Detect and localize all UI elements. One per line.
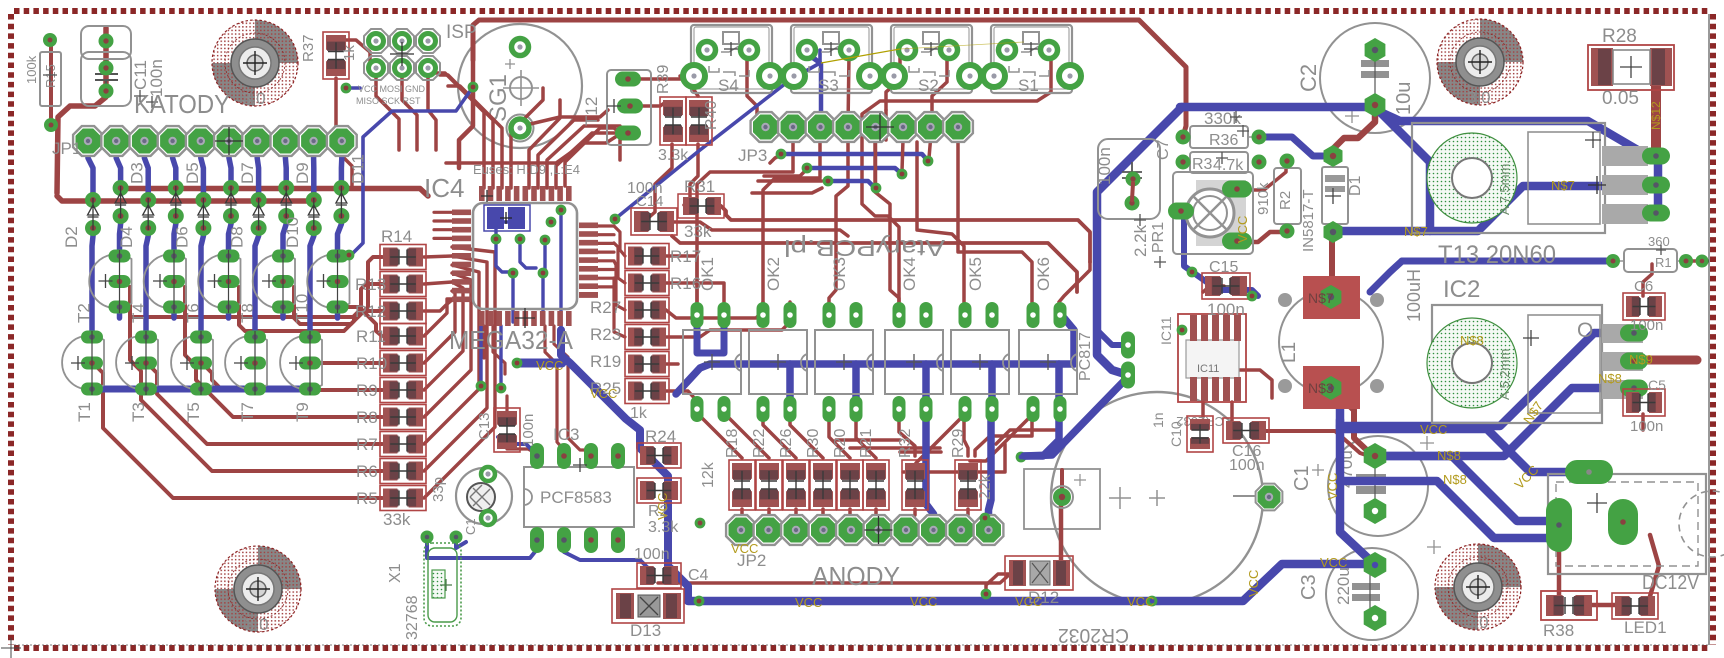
mounting hole bottom-left (215, 546, 301, 634)
wire red S2 left (886, 52, 900, 110)
resistor R1 (1606, 234, 1709, 272)
wire blue crystal 1 (427, 537, 538, 558)
svg-text:S3: S3 (818, 76, 839, 95)
wire blue D8-T (255, 228, 259, 337)
diode D5 (168, 162, 202, 224)
wire red IC4 right pin stub 7 (598, 285, 614, 288)
wire red PR1 top link (1240, 164, 1286, 190)
svg-text:R22: R22 (751, 429, 768, 458)
svg-text:100uH: 100uH (1404, 269, 1424, 322)
wire blue JP1-6 (229, 141, 231, 188)
wire red IC11 3 (1222, 370, 1272, 398)
resistor R18 (729, 460, 755, 510)
wire blue D9-T (283, 216, 286, 256)
IC IC4 (MEGA32-A) (452, 186, 598, 328)
switch S2 (883, 25, 981, 95)
optocoupler OK5 (951, 257, 1009, 422)
wire red IC4-ISP 1 (432, 73, 484, 188)
wire red R15 bottom (49, 47, 53, 125)
svg-text:T8: T8 (238, 303, 257, 323)
svg-text:C7: C7 (1155, 139, 1172, 160)
inductor L1 pads (1303, 276, 1360, 409)
wire red res-JP2 5 (876, 509, 879, 530)
diode D8 (228, 192, 267, 248)
wire blue D4-T (146, 228, 148, 337)
wire red R27-OK2 (666, 302, 763, 318)
wire red T5-R9 (206, 367, 382, 390)
wire red R13-IC4 (424, 282, 452, 284)
svg-text:T7: T7 (238, 402, 257, 422)
wire red OK-R5 (856, 420, 876, 458)
wire red OK-R2 (763, 420, 796, 458)
diode D9 (278, 162, 312, 224)
wire blue JP1-10 (339, 141, 345, 188)
resistor R32 (902, 460, 928, 510)
svg-text:A 5.2mm: A 5.2mm (1497, 349, 1512, 400)
svg-text:3.0: 3.0 (1465, 613, 1489, 632)
svg-text:PR1: PR1 (1150, 222, 1167, 253)
svg-text:JP3: JP3 (738, 146, 767, 165)
capacitor C3 pads (1364, 552, 1387, 631)
wire blue D5-T (174, 216, 176, 256)
wire red R37 top (336, 40, 370, 62)
resistor R34 (1176, 152, 1267, 174)
resistor R21 (863, 460, 889, 510)
svg-text:X1: X1 (387, 563, 404, 583)
wire red IC4 top fan 9 (511, 88, 543, 188)
wire blue IC3 top (498, 437, 538, 456)
wire red T9-R10 (315, 361, 382, 365)
optocoupler OK3 (815, 257, 873, 422)
speaker SG1 outline (458, 24, 582, 148)
wire blue IC4 to S3 diagonal (615, 50, 820, 219)
svg-text:R16: R16 (670, 274, 701, 293)
resistor R10 (380, 351, 426, 376)
wire red T3-R7 (151, 367, 382, 444)
svg-text:MISO SCK RST: MISO SCK RST (356, 96, 421, 106)
vias misc (341, 82, 991, 529)
resistor R17 (625, 244, 669, 269)
wire blue OK6 short drop (1055, 364, 1063, 408)
resistor R14 (380, 245, 426, 270)
svg-text:VCC: VCC (536, 358, 563, 373)
svg-text:100n: 100n (1095, 147, 1114, 185)
wire red IC4 bottom stubs (482, 326, 485, 358)
svg-text:R40: R40 (703, 101, 720, 130)
svg-text:D4: D4 (117, 226, 136, 248)
resistor R11 (380, 324, 426, 349)
wire red R16-OK1b (666, 283, 724, 302)
optocoupler OK2 (749, 257, 807, 422)
svg-text:VCC: VCC (1246, 570, 1261, 597)
wire blue JP1-8 (283, 141, 289, 188)
wire red JP3 down OK4 (875, 142, 899, 302)
transistor T1 (62, 331, 104, 423)
svg-text:R21: R21 (858, 429, 875, 458)
svg-text:R24: R24 (645, 427, 676, 446)
wire blue S3 to JP3 (806, 51, 821, 127)
svg-text:VCC: VCC (1127, 594, 1154, 609)
svg-text:R1: R1 (1655, 255, 1672, 270)
svg-text:33k: 33k (383, 510, 411, 529)
wire red JP3 pad8 down OK6 (958, 142, 1032, 302)
capacitor C10 (1187, 416, 1213, 452)
svg-text:T5: T5 (184, 402, 203, 422)
svg-text:D11: D11 (348, 154, 367, 184)
svg-text:T4: T4 (129, 303, 148, 323)
header JP3 (738, 112, 973, 165)
wire red R31 right 1 (721, 206, 1090, 262)
svg-text:D1: D1 (1347, 175, 1364, 196)
svg-text:AtaryPCB.pl: AtaryPCB.pl (784, 235, 945, 261)
svg-text:R32: R32 (897, 429, 914, 458)
svg-text:2.2k: 2.2k (1131, 224, 1150, 257)
svg-text:D6: D6 (172, 226, 191, 248)
svg-text:R27: R27 (590, 298, 621, 317)
svg-text:IC4: IC4 (424, 173, 464, 203)
wire red DCjack to R38 (1557, 540, 1562, 597)
wire red IC4 left pin stubs (434, 211, 452, 214)
svg-text:3.0: 3.0 (1467, 88, 1491, 107)
optocoupler pads PC817 (1077, 332, 1135, 389)
transistor T7 (225, 331, 267, 423)
svg-text:R23: R23 (590, 325, 621, 344)
svg-text:VCC: VCC (1420, 422, 1447, 437)
diode D4 (117, 192, 156, 248)
wire red IC4-R9 (424, 282, 463, 390)
capacitor C17 on IC4 (blue) (484, 205, 530, 231)
svg-text:910k: 910k (1255, 182, 1272, 215)
wire blue IC2 N$8 (1375, 388, 1634, 456)
svg-text:N$9: N$9 (1629, 352, 1653, 367)
wire blue top right run (1180, 103, 1371, 112)
svg-text:R19: R19 (590, 352, 621, 371)
svg-text:R30: R30 (805, 429, 822, 458)
svg-text:100n: 100n (634, 546, 670, 563)
wire red col link R23 (614, 278, 625, 337)
svg-text:C4: C4 (688, 567, 709, 584)
capacitor C15 (1202, 273, 1250, 299)
wire red res-JP2 0 (741, 509, 742, 530)
svg-text:T13 20N60: T13 20N60 (1438, 241, 1556, 269)
svg-text:ISP: ISP (446, 22, 477, 43)
wire red IC4 right pin stub 4 (598, 259, 614, 262)
svg-text:VCC: VCC (1325, 473, 1340, 500)
wire blue VCC bar at IC4 (1046, 197, 1048, 199)
wire red katody bus A (120, 189, 428, 197)
svg-text:S2: S2 (918, 76, 939, 95)
capacitor C1 pads (1364, 443, 1387, 524)
svg-text:L1: L1 (1279, 342, 1300, 363)
wire red T12 left (620, 133, 628, 160)
mounting hole top-right (1437, 19, 1523, 107)
svg-text:R36: R36 (1209, 132, 1238, 149)
svg-text:3.0: 3.0 (245, 615, 269, 634)
resistor R28 (1588, 26, 1674, 109)
resistor R40 (686, 97, 712, 145)
svg-text:C6: C6 (1634, 278, 1653, 295)
wire red opto xh 1 (836, 438, 900, 442)
svg-text:VCC: VCC (655, 493, 670, 520)
wire red R40 bottom down (684, 144, 698, 205)
svg-text:VCC: VCC (731, 541, 758, 556)
resistor R30 (810, 460, 836, 510)
wire red S3 wire (848, 55, 849, 127)
wire red T8-R13 (294, 284, 382, 324)
wire red IC4 top fan 7 (556, 133, 622, 188)
wire red OK-R3 (790, 420, 823, 458)
wire blue JP1-4 (173, 141, 176, 188)
wire red C5 down (1641, 414, 1645, 430)
wire red IC4-R11 (424, 299, 452, 336)
wire red T12 mid to R39 (632, 102, 666, 106)
wire blue N$8 455 (1375, 456, 1559, 521)
IC IC11 (1158, 314, 1246, 429)
switch S3 (783, 25, 881, 95)
wire red OK6-R29 (970, 415, 1032, 461)
crystal X1 (387, 531, 463, 641)
transistor T9 (280, 331, 322, 423)
wire red R1 right (1686, 259, 1702, 263)
svg-text:N$7: N$7 (1308, 290, 1334, 306)
wire red OK5 feed (884, 110, 888, 140)
wire red opto xlink 3 (975, 420, 1032, 456)
svg-text:ANODY: ANODY (812, 561, 900, 591)
transistor T2 (75, 250, 132, 324)
wire blue OK5 drop long (989, 409, 992, 528)
svg-text:R5: R5 (356, 489, 378, 508)
diode D12 (1005, 556, 1073, 607)
wire red IC4 right pin stub 0 (598, 224, 614, 227)
battery CR2032 outline (1024, 392, 1263, 646)
svg-text:C1: C1 (463, 518, 478, 535)
svg-text:S4: S4 (718, 76, 739, 95)
svg-text:C14: C14 (636, 193, 664, 210)
vias inside IC4 (491, 205, 621, 279)
svg-text:IC2: IC2 (1443, 276, 1480, 303)
wire red IC11 1 (1201, 402, 1205, 417)
svg-text:R3: R3 (1192, 156, 1213, 173)
wire red res-JP2 6 (906, 509, 915, 530)
svg-text:IN5817-T: IN5817-T (1300, 189, 1317, 252)
svg-text:S1: S1 (1018, 76, 1039, 95)
diode D11 (333, 154, 367, 224)
wire red OK5 feed b (917, 142, 964, 302)
header JP2 (726, 515, 1003, 570)
svg-text:R14: R14 (381, 227, 412, 246)
wire red D1 to L1 (1329, 236, 1335, 296)
wire red IC4-R8 (424, 273, 471, 417)
wire blue L1 bottom to trunk (1331, 389, 1340, 430)
svg-text:VCC: VCC (1320, 555, 1347, 570)
svg-text:T3: T3 (129, 402, 148, 422)
resistor R36 (1176, 109, 1267, 149)
wire red DC12V center to LED (1648, 535, 1659, 603)
wire blue IC2 VCC (1340, 333, 1634, 426)
resistor R8 (380, 405, 426, 430)
svg-text:100n: 100n (1229, 457, 1265, 474)
svg-text:R28: R28 (1602, 26, 1637, 47)
wire red bottom long (658, 574, 1010, 583)
wire red below SG1 (446, 134, 620, 163)
wire red R37 down (336, 78, 352, 188)
wire blue bottom VCC bus (688, 564, 1372, 601)
wire red JP3 pad5 via (874, 140, 878, 185)
IC IC3 PCF8583 (524, 425, 634, 553)
wire blue JP1-7 (257, 141, 258, 200)
header JP1 (52, 126, 357, 158)
vias JP3 feeds (776, 149, 934, 194)
resistor R20 (837, 460, 863, 510)
wire blue N$7 diag (1332, 113, 1430, 231)
wire red res-JP2 4 (850, 509, 851, 530)
wire blue JP1-3 (144, 141, 148, 200)
wire red JP3 pad7 via (929, 140, 931, 158)
wire red R17-OK1 (666, 256, 697, 302)
net label VCC texts (536, 101, 1663, 610)
svg-text:IC3: IC3 (553, 425, 579, 444)
wire blue JP1-2 (116, 141, 120, 188)
wire red PR1 link (1240, 232, 1286, 242)
capacitor C11 (81, 26, 166, 108)
svg-text:R29: R29 (950, 429, 967, 458)
capacitor C4 (637, 563, 681, 588)
resistor R12 (380, 299, 426, 324)
svg-text:MEGA32-A: MEGA32-A (449, 325, 574, 355)
crystal holder circle (456, 467, 512, 525)
wire red opto xlink 4 (996, 420, 1059, 444)
wire red opto h472 (903, 444, 1005, 472)
svg-text:100n: 100n (1207, 300, 1245, 319)
svg-text:100n: 100n (520, 414, 537, 447)
resistor R2 910 (1255, 154, 1301, 239)
svg-text:R37: R37 (300, 34, 317, 62)
wire blue JP3 feed 2 (807, 168, 902, 174)
svg-text:OK6: OK6 (1034, 257, 1053, 291)
svg-text:R17: R17 (670, 247, 701, 266)
resistor R19 (625, 352, 669, 377)
wire blue JP1-1 (88, 141, 93, 200)
wire red IC4-R5 (424, 247, 495, 498)
wire red JP3 down OK2 (763, 142, 820, 302)
wire red SG1 left vertical (459, 60, 473, 168)
wire red IC4 top fan 8 (565, 128, 620, 186)
diode D2 (62, 192, 101, 248)
svg-text:OK1: OK1 (698, 257, 717, 291)
resistor R22 (756, 460, 782, 510)
wire red via left feeds (770, 155, 781, 163)
wire red opto xh 2 (850, 446, 940, 450)
svg-text:R20: R20 (832, 429, 849, 458)
svg-text:R7: R7 (356, 435, 378, 454)
wire blue crystal 2 (456, 537, 466, 548)
wire red T1-R5 (97, 367, 382, 498)
transistor T5 (171, 331, 213, 423)
wire red JP3 down OK3 (829, 142, 848, 302)
wire red D12 right to battery (1059, 505, 1064, 567)
svg-text:C15: C15 (1209, 259, 1238, 276)
wire red IC4-R6 (424, 256, 487, 471)
wire blue VCC trunk (561, 330, 688, 598)
svg-text:3.3k: 3.3k (648, 519, 679, 536)
svg-text:N$7: N$7 (1551, 178, 1575, 193)
svg-text:N$3: N$3 (1308, 380, 1334, 396)
switch S1 (983, 25, 1081, 95)
svg-text:T9: T9 (293, 402, 312, 422)
svg-text:D5: D5 (183, 162, 202, 184)
capacitor C3 outline (1298, 540, 1441, 640)
svg-text:3.0: 3.0 (242, 89, 266, 108)
wire red OK-R4 (829, 420, 850, 458)
wire red JP3 pad6 via (902, 140, 903, 171)
optocoupler OK4 (885, 257, 943, 422)
svg-text:T2: T2 (75, 303, 94, 323)
wire red S4 wire (747, 55, 765, 127)
wire blue D6-T (201, 228, 203, 337)
svg-text:0.05: 0.05 (1602, 88, 1639, 109)
svg-text:R2: R2 (1277, 191, 1294, 210)
wire red res-JP2 2 (794, 509, 798, 530)
wire blue JP1-5 (201, 141, 204, 200)
wire red IC4 right pin stub 3 (598, 251, 614, 254)
wire red S2 wire (930, 52, 947, 127)
svg-text:22k: 22k (977, 473, 994, 500)
resistor R27 (625, 298, 669, 323)
capacitor C7 (1095, 139, 1172, 226)
wire blue VCC bar (517, 359, 562, 368)
resistor R25 (625, 379, 669, 404)
svg-text:OK3: OK3 (830, 257, 849, 291)
IC IC2 package (1427, 276, 1648, 423)
wire red N$9 IC2 (1640, 356, 1697, 365)
svg-text:D9: D9 (293, 162, 312, 184)
wire blue C3 junction (1340, 420, 1372, 562)
svg-text:R39: R39 (655, 65, 672, 94)
svg-text:IC11: IC11 (1158, 316, 1174, 345)
wire blue IC4 cap region (496, 214, 561, 330)
wire blue D10-T (310, 228, 314, 337)
wire red T6-R12 (239, 287, 382, 331)
svg-text:OK5: OK5 (966, 257, 985, 291)
resistor R7 (380, 432, 426, 457)
svg-text:N$8: N$8 (1598, 371, 1622, 386)
speaker SG1 pads (511, 39, 529, 138)
wire blue PC817 down (1024, 377, 1128, 456)
resistor R23 (625, 325, 669, 350)
svg-text:R31: R31 (684, 177, 715, 196)
svg-text:VCC: VCC (1015, 594, 1042, 609)
resistor R9 (380, 378, 426, 403)
svg-text:N$12: N$12 (1649, 101, 1663, 130)
wire red IC4 top fan 5 (538, 120, 598, 188)
wire blue R36 to D1 (1259, 137, 1332, 156)
svg-text:IC11: IC11 (1197, 363, 1219, 375)
svg-text:T10: T10 (293, 294, 312, 323)
wire red katody bus B (57, 196, 318, 201)
transistor T13 package (1412, 123, 1670, 269)
wire red OK-R0 (697, 413, 742, 458)
resistor R31 (678, 177, 724, 241)
svg-text:220u: 220u (1334, 567, 1353, 605)
via VCC bar (512, 358, 523, 369)
svg-text:Euses: H:D9 ,L:E4: Euses: H:D9 ,L:E4 (473, 162, 580, 177)
wire blue transistor bus (92, 386, 310, 393)
wire red IC4-R7 (424, 265, 479, 444)
inductor L1 outline (1278, 269, 1424, 394)
svg-text:VCC MOSI GND: VCC MOSI GND (358, 84, 426, 94)
svg-text:100k: 100k (24, 55, 39, 84)
svg-text:100n: 100n (1630, 418, 1663, 435)
